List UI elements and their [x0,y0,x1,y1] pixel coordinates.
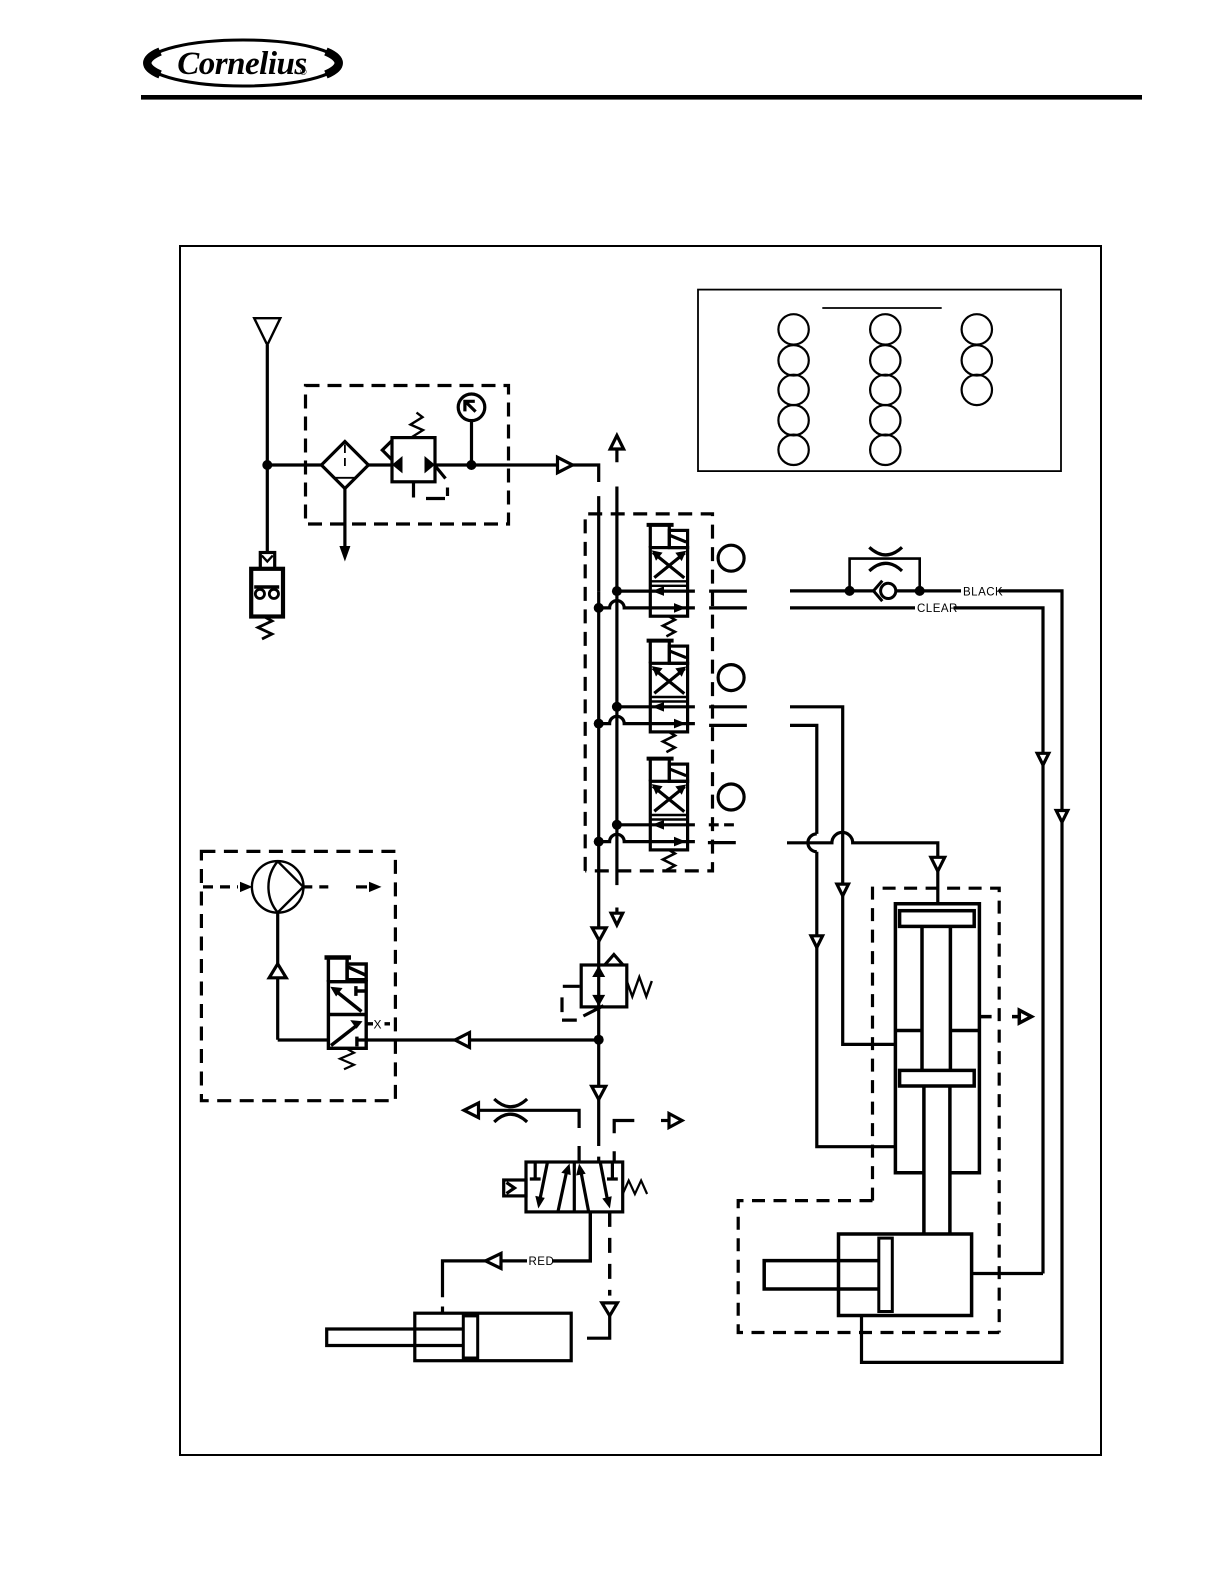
right box arrows [581,1172,589,1212]
pilot valve spring [340,1048,354,1069]
regulator adjust arrow [583,1006,603,1016]
wire to 5/2 valve [597,1100,600,1163]
wire RED to arrow [501,1259,527,1262]
legend circle col3 row2 [962,345,992,375]
wire V2B stub [709,724,747,727]
wire supply to filter [267,463,321,466]
wire pump down [276,913,279,1040]
piston stem lower [924,1086,950,1234]
filter/separator F1 [321,442,368,489]
doser dashed enclosure upper [873,888,1000,1332]
wire V2B down to cylinder lower port [817,948,896,1147]
exhaust triangle up [610,436,623,450]
check triangle up [269,964,286,978]
valve bank dashed enclosure [585,514,712,871]
legend circle col2 row3 [870,375,900,405]
regulator adjust spring [411,413,424,438]
pump outlet dashed arrow [303,885,330,888]
air supply triangle [254,318,280,345]
node bypass right [915,586,925,596]
pilot valve solenoid [325,955,352,959]
pump inner vane [268,861,303,912]
pressure switch PS1 [260,553,274,569]
doser dashed enclosure lower [738,1201,999,1333]
regulator R1 body [392,438,435,482]
lower cylinder rod [764,1261,879,1289]
flow triangle vent right [1019,1010,1031,1023]
node regulator junction [594,1035,604,1045]
regulator spring W [627,977,652,997]
wire V3B stub [708,841,736,844]
bottom port solid [552,1212,590,1261]
gauge G1 [458,394,485,421]
cylinder C1 rod [327,1329,464,1346]
wire CLEAR down [1041,765,1044,1274]
FRL dashed enclosure [306,386,509,525]
legend circle col2 row5 [870,435,900,465]
wire BLACK to corner [999,591,1062,811]
lower cylinder piston [879,1238,893,1311]
left box arrows [540,1163,548,1200]
flow triangle right [669,1114,682,1128]
wire V2A down to cylinder mid port [843,896,896,1045]
wire V2A stub [709,705,747,708]
piston plate lower [900,1070,975,1086]
wire CLEAR to cylinder [972,1272,1043,1275]
hop of vent over V3B [808,834,817,852]
piston stem upper [922,926,950,1070]
svg-text:®: ® [300,67,307,77]
vent bottom tick [615,908,618,914]
legend circle col1 row2 [778,345,808,375]
regulator arrows [592,966,605,978]
Cornelius logo ellipse [147,40,338,86]
legend circle col1 row5 [778,435,808,465]
left box seat [530,1162,541,1179]
wire CLEAR left [790,606,915,609]
wire RED to cylinder [443,1261,486,1313]
flow triangle RED [486,1253,502,1268]
wire V2A long [790,707,843,884]
legend title line [822,307,941,309]
flow triangle BLACK [1056,811,1068,823]
doser right vent stub [979,1015,1019,1019]
wire vent stub [615,449,618,591]
drain line with arrow [343,489,346,547]
restrictor arcs [494,1099,527,1122]
port circle P3 [718,784,744,810]
wire V2B long [790,725,817,834]
wire regulator down [597,1040,600,1087]
legend box [698,290,1061,472]
pump inlet dashed arrow [203,885,238,888]
wire main line left [278,1038,599,1041]
wire to BLACK label [920,589,961,592]
flow triangle left [455,1033,470,1048]
wire V1A stub [709,589,747,592]
svg-text:BLACK: BLACK [963,586,1003,598]
lower cylinder body [839,1234,972,1316]
node supply tee [262,460,272,470]
svg-text:Cornelius: Cornelius [177,46,306,82]
flow triangle V2B [811,936,823,948]
node gauge tee [466,460,476,470]
bypass restrictor [869,547,902,571]
bypass loop [850,559,920,591]
port line right top [614,1121,634,1163]
flow triangle V3B [931,857,945,871]
wire V1B stub [709,606,747,609]
exhaust restrictor line [479,1110,580,1162]
pump P circle [252,861,304,913]
legend circle col1 row1 [778,314,808,344]
wire BLACK down and around [862,822,1063,1362]
wire to cylinder right port [587,1316,610,1338]
pilot actuator [504,1180,526,1196]
regulator flow line [597,965,600,1040]
solenoid valve V2 [594,641,695,753]
pilot valve PV body [328,982,366,1049]
lower box arrow [331,1026,356,1046]
legend circle col1 row3 [778,375,808,405]
pump dashed enclosure [201,851,395,1100]
wire V2B mid [815,852,818,936]
wire V3A stub [709,823,734,826]
wire supply down [266,345,269,553]
wire supply manifold [597,591,600,842]
cylinder C1 body [415,1313,571,1361]
upper box seat [356,986,366,996]
right box seat [607,1162,618,1179]
wire V1A to check valve [790,589,850,592]
flow triangle V2A [837,884,849,896]
schematic border frame [180,246,1101,1455]
solenoid valve V1 [594,525,695,637]
flow arrow right [558,457,573,472]
wire into doser top [936,871,939,904]
wire into regulator [597,941,600,965]
wire between dots [850,589,920,592]
upper box arrow [337,992,362,1012]
vent bottom triangle [611,913,623,925]
piston plate upper [900,911,975,927]
wire vent manifold [615,591,618,825]
regulator pilot dashes [562,986,580,1020]
svg-text:CLEAR: CLEAR [917,603,958,615]
legend circle col2 row1 [870,314,900,344]
legend circle col2 row4 [870,405,900,435]
doser cylinder body [895,904,979,1173]
exhaust right stub [661,1119,669,1122]
legend circle col1 row4 [778,405,808,435]
legend circle col3 row1 [962,314,992,344]
svg-text:RED: RED [529,1256,555,1268]
wire CLEAR to corner [954,608,1044,753]
regulator R2 body [581,965,627,1007]
wire V3B long with hop [787,832,938,857]
main valve spring [623,1181,647,1195]
check valve CV1 [881,583,896,598]
legend circle col2 row2 [870,345,900,375]
regulator vent caret [605,955,623,966]
bottom port dashed [608,1212,611,1296]
flow triangle left exhaust [464,1103,479,1118]
doser mid wall [895,1029,979,1033]
port circle P2 [718,665,744,691]
svg-text:X: X [374,1018,382,1032]
flow triangle CLEAR [1037,753,1049,765]
node bypass left [845,586,855,596]
regulator adjust arrow [435,466,445,478]
wire vent below bank [615,825,618,885]
switch spring [258,617,272,640]
wire supply below bank [597,842,600,928]
header rule [141,95,1142,100]
flow triangle down [592,1086,606,1099]
cylinder C1 piston [463,1316,477,1358]
main valve MV body [526,1162,623,1212]
flow triangle down to regulator [592,928,606,941]
port circle P1 [718,545,744,571]
solenoid valve V3 [594,759,695,871]
legend circle col3 row3 [962,375,992,405]
regulator pilot marks [414,482,448,499]
lower box seat [355,1037,358,1047]
wire to valve bank [573,465,599,591]
pilot port X [366,1022,390,1025]
flow triangle down right port [602,1303,618,1316]
